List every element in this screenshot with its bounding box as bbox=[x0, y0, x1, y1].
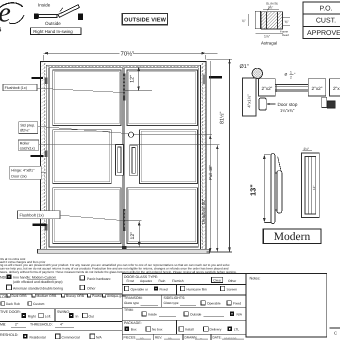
right leaf glass panel 2 bbox=[140, 130, 198, 184]
svg-text:DATE:: DATE: bbox=[213, 335, 222, 339]
svg-text:Inside: Inside bbox=[148, 312, 157, 316]
svg-text:Ø2⅛": Ø2⅛" bbox=[20, 129, 30, 133]
door frame inner edge bbox=[46, 65, 200, 249]
svg-text:2½": 2½" bbox=[304, 147, 310, 151]
svg-text:Rain: Rain bbox=[159, 279, 166, 283]
svg-text:Inside: Inside bbox=[38, 3, 51, 8]
svg-text:2"x2": 2"x2" bbox=[333, 86, 340, 91]
operable fixed row bbox=[131, 287, 238, 291]
svg-text:PACKAGE:: PACKAGE: bbox=[124, 321, 142, 325]
label flushbolt top bbox=[3, 84, 37, 90]
svg-text:Deadbolt 50": Deadbolt 50" bbox=[201, 198, 206, 224]
astragal detail left profile bbox=[255, 11, 260, 29]
svg-text:TRANSOM:: TRANSOM: bbox=[124, 296, 143, 300]
company logo script (cut off at left edge) bbox=[0, 0, 24, 34]
svg-text:Flemish: Flemish bbox=[172, 279, 184, 283]
svg-text:SIDELIGHTS:: SIDELIGHTS: bbox=[164, 296, 186, 300]
svg-text:Screen: Screen bbox=[227, 287, 238, 291]
label hinge bbox=[10, 166, 41, 179]
handle side view grip bbox=[277, 171, 282, 213]
disclaimer lines bbox=[0, 257, 237, 274]
svg-text:Other: Other bbox=[228, 279, 237, 283]
astragal bottom dimension bbox=[255, 33, 283, 35]
svg-text:4"x1½": 4"x1½" bbox=[246, 94, 251, 108]
svg-text:1: 1 bbox=[290, 70, 292, 74]
dimension 12 top (flushbolt) bbox=[123, 67, 152, 91]
svg-text:1¼": 1¼" bbox=[268, 6, 273, 10]
svg-text:Outside: Outside bbox=[190, 312, 202, 316]
door frame outer bbox=[41, 62, 206, 253]
extension line top right bbox=[207, 58, 233, 60]
weatherstrip dashed right bbox=[202, 63, 204, 249]
astragal detail top dimension bbox=[263, 9, 279, 11]
door frame right band hatch bbox=[201, 62, 206, 249]
svg-text:Modern: Modern bbox=[274, 231, 311, 243]
strike pointer dash right bbox=[209, 76, 222, 78]
astragal detail hatched body bbox=[261, 12, 282, 29]
svg-text:Operable: Operable bbox=[207, 301, 221, 305]
left leaf glass panel 2 bbox=[53, 130, 112, 184]
svg-text:Outside: Outside bbox=[45, 21, 61, 26]
svg-text:Box: Box bbox=[131, 328, 137, 332]
svg-text:Antique-gold: Antique-gold bbox=[107, 294, 126, 298]
notes box bbox=[246, 274, 327, 338]
svg-text:C: C bbox=[334, 330, 337, 335]
svg-text:4": 4" bbox=[60, 323, 64, 327]
svg-text:Pewter: Pewter bbox=[92, 294, 103, 298]
svg-text:Flushbolt (1x): Flushbolt (1x) bbox=[5, 86, 27, 90]
svg-text:Glass type: Glass type bbox=[124, 301, 139, 305]
handle front view width dim bbox=[303, 150, 313, 152]
left leaf glass panel 1 bbox=[53, 70, 121, 126]
svg-text:Roller: Roller bbox=[20, 142, 30, 146]
svg-text:⌀: ⌀ bbox=[285, 71, 288, 76]
svg-text:Flushbolt (1x): Flushbolt (1x) bbox=[20, 212, 45, 217]
svg-text:Clear: Clear bbox=[213, 279, 222, 283]
dimension pull 48 bbox=[216, 145, 218, 252]
svg-text:OUTSIDE VIEW: OUTSIDE VIEW bbox=[124, 17, 167, 23]
svg-text:12": 12" bbox=[129, 75, 135, 83]
svg-text:In: In bbox=[76, 315, 79, 319]
right leaf glass panel 1 bbox=[127, 70, 198, 126]
pull handle right leaf bbox=[130, 145, 137, 176]
left door leaf bbox=[49, 68, 123, 247]
right door leaf bbox=[124, 68, 198, 247]
svg-text:Delivery: Delivery bbox=[210, 328, 222, 332]
svg-text:Door stop: Door stop bbox=[278, 102, 298, 107]
svg-text:TIVE DOOR:: TIVE DOOR: bbox=[0, 310, 21, 314]
hinge jamb board 4x1.5 bbox=[242, 78, 256, 116]
handle front view bbox=[302, 153, 320, 218]
svg-text:1⅞": 1⅞" bbox=[264, 34, 271, 38]
label roller catch bbox=[18, 140, 39, 150]
svg-text:Other: Other bbox=[87, 286, 96, 290]
svg-text:Install: Install bbox=[185, 328, 194, 332]
svg-text:RESHOLD:: RESHOLD: bbox=[0, 333, 18, 337]
svg-text:Frost: Frost bbox=[127, 279, 135, 283]
svg-text:Head: Head bbox=[282, 33, 289, 37]
threshold bbox=[38, 249, 210, 253]
svg-text:Panic hardware: Panic hardware bbox=[87, 277, 111, 281]
svg-text:⅜": ⅜" bbox=[285, 20, 290, 24]
door frame left band hatch bbox=[41, 62, 46, 249]
svg-text:REV:: REV: bbox=[155, 335, 162, 339]
pull handle left leaf bbox=[116, 144, 124, 175]
extension line bottom right bbox=[207, 251, 233, 253]
svg-text:Residental: Residental bbox=[30, 335, 46, 339]
svg-text:12": 12" bbox=[130, 232, 136, 240]
svg-text:Glass type: Glass type bbox=[164, 301, 179, 305]
flushbolt rod bottom bbox=[123, 209, 126, 231]
svg-text:Medium ORB: Medium ORB bbox=[37, 294, 58, 298]
extension line pull height bbox=[137, 144, 219, 146]
svg-text:Left: Left bbox=[45, 315, 51, 319]
dimension 12 bottom (flushbolt) bbox=[124, 221, 142, 247]
hinge pointer dash top bbox=[32, 77, 44, 79]
right leaf glass panel 3 bbox=[127, 188, 198, 244]
flushbolt rod top bbox=[122, 74, 125, 101]
svg-text:(with offested and deadbolt pr: (with offested and deadbolt prep) bbox=[13, 280, 63, 284]
form main grid bbox=[0, 274, 327, 340]
P.O. / CUST. / APPROVED table bbox=[303, 2, 340, 39]
dimension 70.5 width bbox=[43, 53, 217, 60]
svg-text:70½": 70½" bbox=[121, 50, 135, 57]
handle side view plate bbox=[271, 154, 275, 224]
svg-text:Fixed: Fixed bbox=[233, 301, 241, 305]
svg-text:13": 13" bbox=[312, 186, 316, 190]
handle side view top pin bbox=[278, 156, 281, 170]
weatherstrip dashed top bbox=[48, 65, 200, 67]
hatched stop block bbox=[327, 101, 335, 108]
svg-text:Astragal: Astragal bbox=[261, 41, 277, 46]
svg-text:No box: No box bbox=[152, 328, 163, 332]
hinge leaf marks on left frame bbox=[44, 77, 47, 84]
hinge barrel circle bbox=[252, 68, 262, 78]
svg-text:2: 2 bbox=[290, 75, 292, 79]
svg-text:1¼"x¾": 1¼"x¾" bbox=[280, 108, 295, 113]
svg-text:81½": 81½" bbox=[220, 112, 226, 124]
swing label box Right Hand In-swing bbox=[31, 28, 82, 35]
svg-text:P.O.: P.O. bbox=[319, 5, 332, 12]
door stop leader arrow bbox=[269, 103, 276, 105]
door stop profile bbox=[259, 98, 266, 110]
left leaf glass panel 3 bbox=[53, 188, 121, 244]
svg-text:": " bbox=[294, 72, 296, 76]
weatherstrip dashed left bbox=[44, 63, 46, 249]
label std prep deadbolt bbox=[19, 122, 38, 134]
svg-text:PIECES:: PIECES: bbox=[124, 335, 137, 339]
jamb section 2x2 middle bbox=[308, 79, 326, 96]
svg-text:2"x2": 2"x2" bbox=[312, 86, 323, 91]
hinge pointer dash middle bbox=[31, 155, 44, 157]
svg-text:APPROVED: APPROVED bbox=[307, 30, 340, 37]
svg-text:Door (3x): Door (3x) bbox=[11, 174, 26, 178]
deadbolt cylinder bbox=[128, 132, 133, 137]
label flushbolt bottom bbox=[18, 211, 61, 219]
svg-text:Right Hand In-swing: Right Hand In-swing bbox=[33, 29, 73, 34]
svg-text:Hurricane film: Hurricane film bbox=[187, 287, 208, 291]
flushbolt floor strike bbox=[122, 246, 126, 254]
strike mark on right frame bbox=[203, 74, 206, 84]
svg-text:13": 13" bbox=[248, 184, 257, 196]
svg-text:SWING:: SWING: bbox=[57, 310, 70, 314]
svg-text:2"x2": 2"x2" bbox=[261, 86, 272, 91]
svg-text:N/A: N/A bbox=[96, 335, 102, 339]
svg-text:catch(1x): catch(1x) bbox=[20, 146, 35, 150]
svg-text:Dark ORB: Dark ORB bbox=[12, 294, 28, 298]
svg-text:Fixed: Fixed bbox=[160, 287, 168, 291]
hinge pointer dash bottom bbox=[33, 223, 47, 226]
svg-text:Ø1": Ø1" bbox=[240, 64, 249, 70]
svg-text:N/A: N/A bbox=[237, 312, 243, 316]
svg-text:Out: Out bbox=[89, 315, 95, 319]
svg-text:CUST.: CUST. bbox=[316, 18, 336, 25]
svg-text:Dark Rob: Dark Rob bbox=[6, 302, 20, 306]
svg-text:Hinge: 4"xØ1": Hinge: 4"xØ1" bbox=[11, 169, 35, 173]
svg-text:Custom: Custom bbox=[33, 302, 45, 306]
swing diagram left jamb block bbox=[34, 14, 39, 19]
svg-text:Right: Right bbox=[28, 315, 36, 319]
handle detail dimension 13 bbox=[264, 155, 271, 223]
handle grip standoffs bbox=[275, 172, 277, 174]
swing diagram sill bar bbox=[39, 15, 58, 18]
svg-text:MB:: MB: bbox=[0, 323, 6, 327]
handle section row bbox=[0, 275, 111, 290]
stop profile under middle jamb bbox=[322, 97, 327, 108]
color section row bbox=[0, 294, 126, 306]
extension line deadbolt height bbox=[134, 134, 212, 136]
svg-text:Commercial: Commercial bbox=[62, 335, 80, 339]
OUTSIDE VIEW title box bbox=[122, 14, 167, 25]
svg-text:Pull 48": Pull 48" bbox=[208, 165, 213, 180]
swing diagram door leaf (open) bbox=[58, 5, 79, 17]
svg-text:Brassy ORB: Brassy ORB bbox=[66, 294, 85, 298]
svg-text:Notes:: Notes: bbox=[250, 277, 261, 281]
style name box Modern bbox=[263, 229, 321, 244]
svg-text:Iron handle: Modern-Custom: Iron handle: Modern-Custom bbox=[13, 275, 56, 279]
swing diagram hinge jamb block bbox=[78, 14, 83, 21]
svg-text:LTL: LTL bbox=[234, 328, 240, 332]
svg-text:American standard double borin: American standard double boring bbox=[13, 287, 63, 291]
svg-text:TRIM:: TRIM: bbox=[124, 308, 134, 312]
svg-text:RS: RS bbox=[0, 27, 1, 34]
corner mark bottom right bbox=[330, 327, 340, 329]
svg-text:THRESHOLD:: THRESHOLD: bbox=[30, 323, 53, 327]
svg-text:⅞": ⅞" bbox=[242, 19, 247, 23]
title strip row bbox=[124, 335, 237, 340]
svg-text:Std prep.: Std prep. bbox=[20, 123, 35, 127]
svg-text:Operable or: Operable or bbox=[131, 287, 149, 291]
jamb section 2x2 left bbox=[259, 79, 276, 96]
dimension height 81.5 bbox=[229, 59, 231, 252]
dimension deadbolt 50 bbox=[209, 61, 211, 252]
sill bar between jambs bbox=[275, 84, 310, 91]
swing label pointer bbox=[60, 8, 63, 12]
jamb section 2x2 right (clipped) bbox=[330, 79, 340, 96]
svg-text:Aquatex: Aquatex bbox=[140, 279, 152, 283]
svg-text:2": 2" bbox=[15, 323, 19, 327]
